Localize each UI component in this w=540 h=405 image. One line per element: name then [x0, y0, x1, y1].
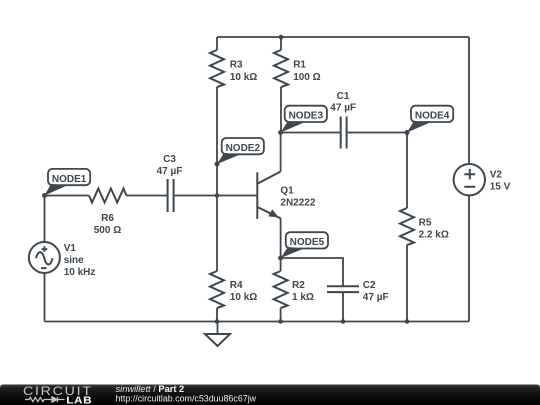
svg-text:2.2 kΩ: 2.2 kΩ	[419, 229, 449, 240]
svg-text:15 V: 15 V	[490, 181, 511, 192]
svg-text:LAB: LAB	[66, 395, 92, 405]
svg-text:R4: R4	[230, 280, 243, 291]
wire R2 top lead	[280, 258, 282, 271]
svg-text:2N2222: 2N2222	[280, 198, 315, 209]
footer logo doodle (resistor + diode)	[25, 397, 65, 402]
resistor R5	[400, 208, 449, 245]
svg-text:R1: R1	[293, 60, 306, 71]
wire right rail top	[468, 37, 470, 164]
svg-text:NODE4: NODE4	[415, 111, 450, 122]
node NODE1	[42, 169, 90, 198]
wire V1 top lead	[44, 196, 46, 243]
wire emitter vertical	[280, 218, 282, 258]
svg-text:1 kΩ: 1 kΩ	[292, 292, 314, 303]
svg-text:10 kHz: 10 kHz	[64, 267, 96, 278]
resistor R1	[274, 50, 321, 87]
resistor R2	[274, 271, 314, 308]
svg-text:47 µF: 47 µF	[330, 103, 356, 114]
footer logo CIRCUIT	[23, 384, 93, 398]
svg-text:500 Ω: 500 Ω	[94, 225, 121, 236]
footer title text	[116, 384, 257, 403]
wire R6 to C3	[127, 195, 168, 197]
svg-text:C1: C1	[337, 91, 350, 102]
wire R3 to NODE2/R4 column	[216, 87, 218, 271]
node junction C3/column	[215, 193, 220, 198]
svg-text:10 kΩ: 10 kΩ	[230, 292, 257, 303]
node NODE4	[405, 106, 454, 135]
capacitor C1	[330, 91, 356, 149]
svg-text:V1: V1	[64, 243, 77, 254]
footer bar	[0, 385, 540, 405]
svg-text:R3: R3	[230, 60, 243, 71]
resistor R6	[89, 189, 127, 237]
wire R5 bottom lead	[406, 245, 408, 322]
wire C1 to NODE4	[347, 132, 407, 134]
wire R5 top lead	[406, 133, 408, 209]
capacitor C2	[327, 280, 389, 303]
wire C3 to base column	[174, 195, 258, 197]
wire collector vertical	[280, 133, 282, 172]
svg-text:100 Ω: 100 Ω	[293, 72, 320, 83]
ground	[205, 322, 230, 347]
wire R1 top lead	[280, 37, 282, 50]
capacitor C3	[157, 154, 183, 212]
wire R1 bottom lead to NODE3	[280, 87, 282, 133]
wire R3 top lead	[216, 37, 218, 50]
svg-text:R6: R6	[101, 213, 114, 224]
transistor Q1	[257, 172, 316, 219]
node NODE2	[215, 138, 264, 167]
svg-text:Q1: Q1	[280, 186, 294, 197]
svg-text:R5: R5	[419, 217, 432, 228]
svg-text:C2: C2	[363, 280, 376, 291]
node NODE5	[278, 232, 328, 260]
node NODE3	[278, 106, 327, 135]
svg-text:NODE1: NODE1	[52, 174, 87, 185]
svg-text:C3: C3	[163, 154, 176, 165]
svg-text:NODE3: NODE3	[289, 111, 324, 122]
svg-text:http://circuitlab.com/c53duu86: http://circuitlab.com/c53duu86c67jw	[116, 393, 257, 403]
wire right rail bottom	[468, 196, 470, 322]
svg-text:47 µF: 47 µF	[363, 292, 389, 303]
wire NODE1 to R6	[45, 195, 90, 197]
voltage source V1	[29, 242, 95, 278]
svg-text:NODE5: NODE5	[290, 237, 325, 248]
svg-text:sine: sine	[64, 255, 84, 266]
wire R2 bottom lead	[280, 308, 282, 322]
wire C2 bottom lead	[342, 292, 344, 321]
svg-text:R2: R2	[292, 280, 305, 291]
wire NODE5 to C2	[281, 258, 343, 286]
svg-text:NODE2: NODE2	[226, 143, 261, 154]
wire NODE3 to C1	[281, 132, 341, 134]
wire top rail	[217, 36, 469, 38]
svg-text:V2: V2	[490, 169, 503, 180]
node top junction	[279, 35, 284, 40]
voltage source V2	[454, 164, 511, 195]
node bottom junctions	[215, 319, 410, 324]
svg-text:10 kΩ: 10 kΩ	[230, 72, 257, 83]
wire R4 bottom lead	[216, 308, 218, 322]
resistor R3	[210, 50, 257, 87]
footer logo LAB	[66, 395, 92, 405]
resistor R4	[210, 271, 257, 308]
wire bottom rail	[45, 321, 470, 323]
svg-text:47 µF: 47 µF	[157, 166, 183, 177]
wire V1 bottom lead	[44, 273, 46, 322]
